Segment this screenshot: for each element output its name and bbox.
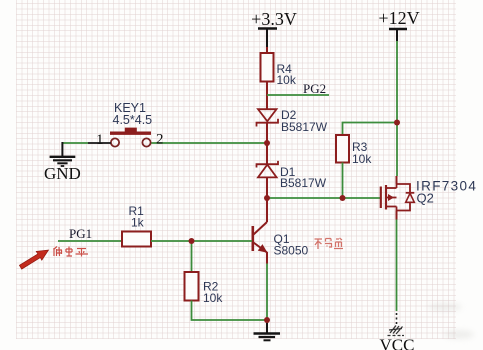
- svg-text:S8050: S8050: [274, 244, 309, 258]
- junction node emitter/ground: [264, 317, 270, 323]
- node PG2 wire: [267, 94, 329, 96]
- junction node R3 bottom: [340, 195, 346, 201]
- transistor Q1 S8050: [253, 222, 309, 258]
- faint smudge: [444, 330, 474, 339]
- annotation 低电平 (red): [54, 247, 89, 257]
- wire D1 to collector node: [266, 177, 268, 198]
- svg-text:GND: GND: [44, 164, 81, 183]
- svg-text:1k: 1k: [131, 216, 145, 230]
- wire source down to VCC: [396, 220, 398, 312]
- key KEY1: [96, 101, 164, 148]
- diode D2 B5817W: [257, 108, 328, 134]
- power +12V: [378, 8, 419, 41]
- svg-text:+3.3V: +3.3V: [251, 9, 297, 29]
- wire source red: [396, 211, 398, 220]
- power VCC (bottom, clipped): [380, 313, 415, 350]
- wire R1 to base node: [151, 240, 252, 242]
- wire node to D1: [266, 143, 268, 164]
- wire KEY1 pin1 to GND: [88, 142, 111, 144]
- wire gate net: [267, 197, 380, 199]
- annotation 不导通 (red): [315, 238, 344, 249]
- junction node base/R2: [189, 238, 195, 244]
- ground (bottom): [254, 320, 281, 340]
- svg-text:10k: 10k: [203, 291, 223, 305]
- svg-text:1: 1: [96, 132, 104, 148]
- wire +12V down: [396, 41, 398, 176]
- svg-text:4.5*4.5: 4.5*4.5: [113, 113, 153, 127]
- wire D2 to node: [266, 123, 268, 143]
- diode D1 B5817W: [257, 161, 327, 190]
- svg-text:PG2: PG2: [303, 81, 326, 96]
- svg-text:2: 2: [156, 132, 164, 148]
- wire base node to R2: [191, 241, 193, 272]
- svg-text:B5817W: B5817W: [280, 176, 327, 190]
- wire emitter down: [266, 252, 268, 264]
- resistor R2: [185, 272, 224, 305]
- svg-text:10k: 10k: [277, 73, 297, 87]
- svg-text:B5817W: B5817W: [281, 120, 328, 134]
- wire +12V node to R3: [343, 123, 398, 136]
- wire collector up: [266, 198, 268, 222]
- wire R3 to gate net: [342, 163, 344, 199]
- resistor R3: [336, 135, 372, 166]
- faint smudge: [428, 303, 462, 311]
- wire drain red: [396, 176, 398, 184]
- power +3.3V: [251, 9, 297, 47]
- wire KEY1 pin2 to node: [151, 142, 268, 144]
- transistor Q2 IRF7304 (P-MOSFET): [381, 179, 477, 211]
- svg-text:PG1: PG1: [69, 226, 92, 241]
- resistor R4: [261, 53, 297, 87]
- wire R2 to ground net: [192, 301, 268, 321]
- svg-text:10k: 10k: [352, 152, 372, 166]
- junction node +12V / R3: [394, 120, 400, 126]
- wire +3.3V to R4: [266, 47, 268, 53]
- ground GND (left): [44, 142, 81, 183]
- wire R4 to D2: [266, 82, 268, 110]
- svg-text:VCC: VCC: [380, 336, 415, 350]
- wire emitter green: [266, 264, 268, 321]
- junction node D1/D2/KEY: [264, 140, 270, 146]
- wire green segment: [63, 142, 88, 144]
- junction node gate net left: [264, 195, 270, 201]
- annotation arrow (red): [19, 250, 48, 269]
- svg-text:Q2: Q2: [417, 191, 434, 206]
- svg-text:+12V: +12V: [378, 8, 419, 28]
- node PG1 wire: [58, 240, 122, 242]
- resistor R1: [122, 204, 151, 247]
